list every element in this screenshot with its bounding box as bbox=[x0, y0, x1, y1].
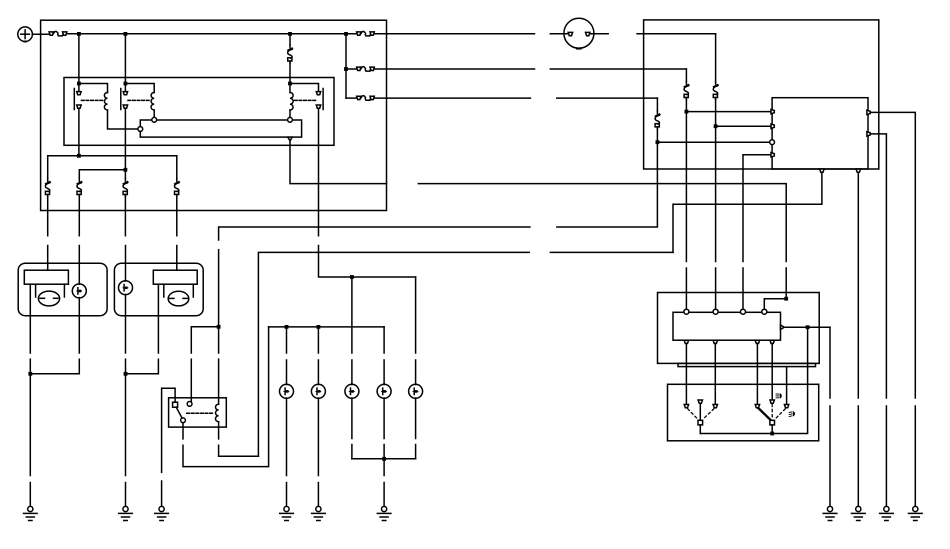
pin: conn L1 bbox=[771, 109, 774, 113]
ground: bulb1 bbox=[280, 506, 294, 520]
wire: row2 out bbox=[374, 68, 534, 70]
engine-compartment fuse box (outer box) bbox=[41, 20, 387, 210]
wire: relay3 switch feed bbox=[290, 84, 319, 92]
wire: row2 to right box bbox=[550, 68, 686, 70]
junction: relay1 switch to lamp bus bbox=[77, 154, 81, 158]
wire: L position out bbox=[78, 298, 80, 353]
wire: bulb1 feed bbox=[286, 327, 288, 353]
ground: dimmer relay bbox=[155, 506, 169, 520]
pin: strip right bbox=[781, 325, 785, 329]
wire: relay3 feed drop lower bbox=[289, 63, 291, 93]
wire: feed2 to L position bulb bbox=[78, 246, 80, 285]
wire: long mid wire y252 right bbox=[550, 251, 673, 253]
wire: relay3 lamp run bbox=[319, 246, 416, 278]
wire: right verticals resume to grounds bbox=[830, 406, 915, 506]
wire: tail bus down bbox=[383, 459, 385, 476]
wire: fuse4 out bbox=[176, 197, 178, 236]
wire: dimmer ground tail bbox=[161, 481, 163, 506]
pin: conn R1 bbox=[867, 110, 870, 114]
wire: conn bottom2 down bbox=[857, 172, 859, 398]
bulb: R position lamp bbox=[119, 281, 133, 295]
relay R2 coil bbox=[151, 93, 154, 111]
wire: bulb4 down bbox=[383, 398, 385, 439]
ground: headlight L bbox=[24, 506, 38, 520]
dimmer switch contact R1 bbox=[755, 405, 759, 408]
fuse: position L bbox=[77, 179, 81, 197]
wire: boxA pin4 link bbox=[764, 299, 786, 310]
wire: bulb2 ground tail bbox=[317, 483, 319, 507]
wire: dimmer coil out resume bbox=[219, 445, 259, 456]
wire: light switch common down bbox=[699, 425, 701, 434]
wire battery to fusible link bbox=[32, 33, 48, 35]
wire: switch common drop bbox=[700, 327, 807, 433]
wire: conn R2 to right drop bbox=[870, 134, 886, 398]
wire: dimmer switch feed resume bbox=[190, 359, 192, 401]
junction: relay2 line / bus2 bbox=[124, 168, 128, 172]
wire: row2 stub bbox=[346, 68, 356, 70]
dimmer relay box bbox=[169, 398, 227, 427]
junction: boxA pin4 route bbox=[784, 297, 788, 301]
junction: tail bus bbox=[382, 457, 386, 461]
junction: R ground join bbox=[124, 372, 128, 376]
wire: R position out bbox=[125, 294, 127, 353]
pin: conn L2 bbox=[771, 124, 774, 128]
junction: bus / relay1 feed bbox=[77, 32, 81, 36]
dash connector box bbox=[772, 98, 868, 169]
wire: dimmer square contact to ground wire bbox=[162, 388, 176, 472]
wire: R join bbox=[126, 359, 159, 374]
pin: conn bottom1 bbox=[820, 169, 824, 172]
junction: L ground join bbox=[28, 372, 32, 376]
relay R3 coil bbox=[290, 93, 293, 111]
junction: dash B / pin1 bbox=[685, 110, 689, 114]
wire: conn bottom1 route bbox=[673, 172, 822, 252]
bulb: tail 1 bbox=[280, 384, 294, 398]
wire: tail join bus bbox=[352, 445, 416, 459]
junction: switch bus bbox=[770, 432, 774, 436]
wire: row1 out bbox=[374, 33, 534, 35]
wire: feed3 to R position bulb bbox=[125, 246, 127, 282]
wire: R ground tail bbox=[125, 483, 127, 507]
junction: dash A / pin2 bbox=[714, 124, 718, 128]
wire: relay1 switch out bbox=[78, 108, 80, 156]
wire: L join bbox=[30, 359, 79, 374]
wire: relay3 out down to right turn bbox=[290, 141, 387, 184]
fuse: headlight R main bbox=[174, 179, 178, 197]
pin: strip top3 bbox=[741, 309, 746, 314]
bulb: tail 3 bbox=[345, 384, 359, 398]
dimmer relay contact (circle) bbox=[187, 402, 192, 407]
pin: strip bottom4 bbox=[770, 340, 774, 343]
light switch contact Loff bbox=[698, 400, 702, 403]
wire: bulb2 down bbox=[317, 398, 319, 476]
pin: connector top (relay3 coil) bbox=[288, 117, 293, 122]
dimmer switch arm (solid low) bbox=[759, 408, 772, 420]
wire: relay2 feed drop bbox=[124, 34, 126, 92]
pin: strip top2 bbox=[713, 309, 718, 314]
light switch contact L1 bbox=[684, 405, 688, 408]
wire: to conn pin2 bbox=[716, 125, 773, 127]
wire: strip right out bbox=[784, 326, 830, 328]
dimmer relay coil bbox=[215, 404, 218, 422]
pin: connector left bbox=[138, 127, 143, 132]
pin: strip bottom1 bbox=[684, 340, 688, 343]
pin: connector bottom (relay3 out) bbox=[288, 137, 292, 141]
wire: relay2 coil feed bbox=[125, 84, 154, 93]
pin: conn bottom2 bbox=[856, 169, 860, 172]
wire: L ground tail bbox=[29, 483, 31, 507]
relay R3 switch bbox=[316, 89, 323, 110]
wire: relay2 switch out bbox=[124, 108, 126, 178]
dimmer switch contact R2 bbox=[784, 405, 788, 408]
junction: bus/bulb2 bbox=[317, 325, 321, 329]
connector block in relay box bbox=[140, 120, 301, 137]
wire: dimmer coil feed resume bbox=[218, 359, 220, 404]
fuse: dash C bbox=[655, 111, 659, 129]
wires: boxA pins to switch bbox=[686, 344, 786, 405]
wire: row3 drop bbox=[656, 98, 658, 111]
ground: tail lamps bbox=[377, 506, 391, 520]
ground: right 1 bbox=[823, 506, 837, 520]
switch connector strip bbox=[673, 312, 781, 340]
ground: right 3 bbox=[880, 506, 894, 520]
wire: right ground drop bbox=[829, 327, 831, 398]
wire: R headlight out bbox=[157, 284, 159, 353]
wire: to conn pin3 bbox=[657, 141, 772, 143]
light switch dashed arms bbox=[688, 409, 714, 420]
dimmer relay pivot bbox=[181, 418, 186, 423]
bulb: tail 4 bbox=[377, 384, 391, 398]
wire: row3 to right box bbox=[557, 97, 658, 99]
wire: bulb5 feed bbox=[415, 277, 417, 353]
bulb: tail 5 bbox=[409, 384, 423, 398]
wire: row1 to right box bbox=[637, 33, 716, 35]
wire: dimmer common down bbox=[771, 425, 773, 434]
wire: fuse column vertical bbox=[345, 34, 347, 98]
lighting switch box B bbox=[668, 384, 819, 441]
column switch connector box A bbox=[658, 293, 820, 364]
wire: lamp bus 1 bbox=[48, 156, 177, 179]
wire: relay1 feed drop bbox=[78, 34, 80, 92]
wire: row1 drop bbox=[715, 34, 717, 82]
junction: bus / fuse column bbox=[344, 32, 348, 36]
fuse: position R bbox=[123, 179, 127, 197]
relay R1 link (dashed) bbox=[82, 99, 104, 101]
light switch contact L2 bbox=[713, 405, 717, 408]
wire: dimmer switch feed branch bbox=[191, 327, 218, 353]
wire: L to ground bbox=[29, 374, 31, 476]
wire: L headlight out bbox=[29, 284, 31, 353]
wire: bulb2 feed bbox=[317, 327, 319, 353]
junction: bus / relay2 feed bbox=[124, 32, 128, 36]
wire: relay3 feed drop upper bbox=[289, 34, 291, 45]
junction: bus / relay3 feed bbox=[288, 32, 292, 36]
pin: strip top4 bbox=[762, 309, 767, 314]
wire: relay2 coil out bbox=[153, 110, 155, 117]
wire: dash C out / to long wire bbox=[557, 129, 658, 227]
wire: battery bus bbox=[67, 33, 357, 35]
dimmer relay arm bbox=[176, 407, 182, 418]
junction: bus/bulb1 bbox=[285, 325, 289, 329]
wire: mid feed resume segment bbox=[218, 250, 220, 353]
wire: relay1 coil feed bbox=[79, 84, 108, 93]
icon: high beam bbox=[776, 393, 782, 398]
icon: low beam bbox=[789, 411, 795, 416]
wire: feed4 to R headlight bbox=[176, 246, 178, 271]
light switch arm (solid, off) bbox=[699, 403, 701, 420]
wire: R to ground bbox=[125, 374, 127, 476]
junction: relay3 top bbox=[288, 82, 292, 86]
wire: bulb5 down bbox=[415, 398, 417, 439]
ignition/light switch bbox=[550, 18, 608, 48]
wire: dash B out bbox=[685, 100, 687, 262]
wire: dimmer coil out bbox=[218, 422, 220, 439]
ground: bulb2 bbox=[312, 506, 326, 520]
wire: bulb3 feed bbox=[351, 277, 353, 353]
relay R3 link (dashed) bbox=[295, 99, 317, 101]
wire: bulb4 feed bbox=[383, 327, 385, 353]
pin: strip bottom3 bbox=[755, 340, 759, 343]
relay box (inner box) bbox=[64, 78, 334, 146]
bulb: L position lamp bbox=[72, 284, 86, 298]
boxA lower bar bbox=[678, 363, 816, 366]
wire: fuse1 out bbox=[47, 197, 49, 236]
fuse: row1 bbox=[357, 31, 375, 36]
fuse: headlight L main bbox=[45, 179, 49, 197]
wire: feed1 to L headlight bbox=[47, 246, 49, 271]
wire: dimmer pivot out bbox=[182, 423, 184, 439]
wire: dash A out bbox=[715, 100, 717, 262]
fuse: dash B bbox=[684, 82, 688, 100]
fuse: row2 bbox=[357, 67, 375, 72]
pin: connector top (relay2 coil) bbox=[152, 117, 157, 122]
wire: to conn pin1 bbox=[686, 111, 772, 113]
wire: L drop resume bbox=[29, 359, 31, 374]
pin: conn L4 bbox=[771, 153, 774, 157]
light switch common (square) bbox=[698, 420, 703, 425]
junction: fuse column row2 bbox=[344, 67, 348, 71]
wire: bulb1 down bbox=[286, 398, 288, 476]
junction: relay2 top bbox=[124, 82, 128, 86]
fuse: dash A bbox=[713, 82, 717, 100]
fusible link FL (main) bbox=[49, 31, 67, 36]
wire: long mid wire y227 left bbox=[219, 227, 530, 240]
ground: right 4 bbox=[909, 506, 923, 520]
wire: row3 out bbox=[374, 97, 530, 99]
dimmer switch dashed arms bbox=[772, 404, 785, 420]
junction: run/bulb3 bbox=[350, 275, 354, 279]
wire: relay3 switch out bbox=[318, 108, 320, 236]
dimmer switch contact Rmid bbox=[770, 400, 774, 403]
wire: R drop resume bbox=[125, 359, 127, 374]
dimmer relay fixed contact (square) bbox=[173, 402, 178, 407]
relay R2 link (dashed) bbox=[128, 99, 150, 101]
pin: conn R2 bbox=[867, 132, 870, 136]
pin: conn L3 bbox=[770, 140, 775, 145]
wire: bulb feeds resume bbox=[287, 360, 416, 385]
junction: dimmer feed split bbox=[217, 325, 221, 329]
wire: lamp bus 2 bbox=[79, 170, 125, 179]
bulb: tail 2 bbox=[311, 384, 325, 398]
wire: fuse2 out bbox=[78, 197, 80, 236]
relay R1 coil bbox=[104, 93, 107, 111]
battery B+ bbox=[18, 27, 33, 42]
relay R1 switch bbox=[74, 89, 81, 110]
wire: fuse3 out bbox=[124, 197, 126, 236]
relay R2 switch bbox=[121, 89, 128, 110]
ground: headlight R bbox=[119, 506, 133, 520]
wire: A-feed resumes bbox=[686, 268, 786, 309]
wire: dimmer pivot out resume bbox=[183, 327, 269, 467]
wire: conn pin4 feed bbox=[743, 155, 772, 262]
pin: strip bottom2 bbox=[713, 340, 717, 343]
wire: bulb bus bbox=[269, 326, 385, 328]
dimmer switch common (square) bbox=[770, 420, 775, 425]
wire: relay3 coil out bbox=[289, 110, 291, 117]
junction: relay1 top bbox=[77, 82, 81, 86]
wire: row2 drop bbox=[685, 69, 687, 82]
junction: dash C / pin3 bbox=[656, 140, 660, 144]
pin: strip top1 bbox=[684, 309, 689, 314]
wire: row3 stub bbox=[346, 97, 356, 99]
headlight assembly L bbox=[18, 263, 107, 316]
headlight assembly R bbox=[114, 263, 203, 316]
ground: right 2 bbox=[852, 506, 866, 520]
junction: strip right tee bbox=[806, 325, 810, 329]
wire: bulb3 down bbox=[351, 398, 353, 439]
wire: long wire y183 right segment bbox=[418, 184, 786, 262]
wire: relay1 coil out bbox=[108, 110, 138, 129]
wire: tail ground tail bbox=[383, 483, 385, 507]
fuse: row3 bbox=[357, 96, 375, 101]
wire: conn R1 to right drop bbox=[870, 112, 915, 398]
wire: long mid wire y252 left bbox=[258, 252, 529, 456]
wire: bulb1 ground tail bbox=[286, 483, 288, 507]
dash fuse box (right box) bbox=[644, 20, 879, 169]
dimmer relay link (dashed) bbox=[187, 412, 213, 414]
fusible link (relay3 feed) bbox=[288, 45, 292, 63]
